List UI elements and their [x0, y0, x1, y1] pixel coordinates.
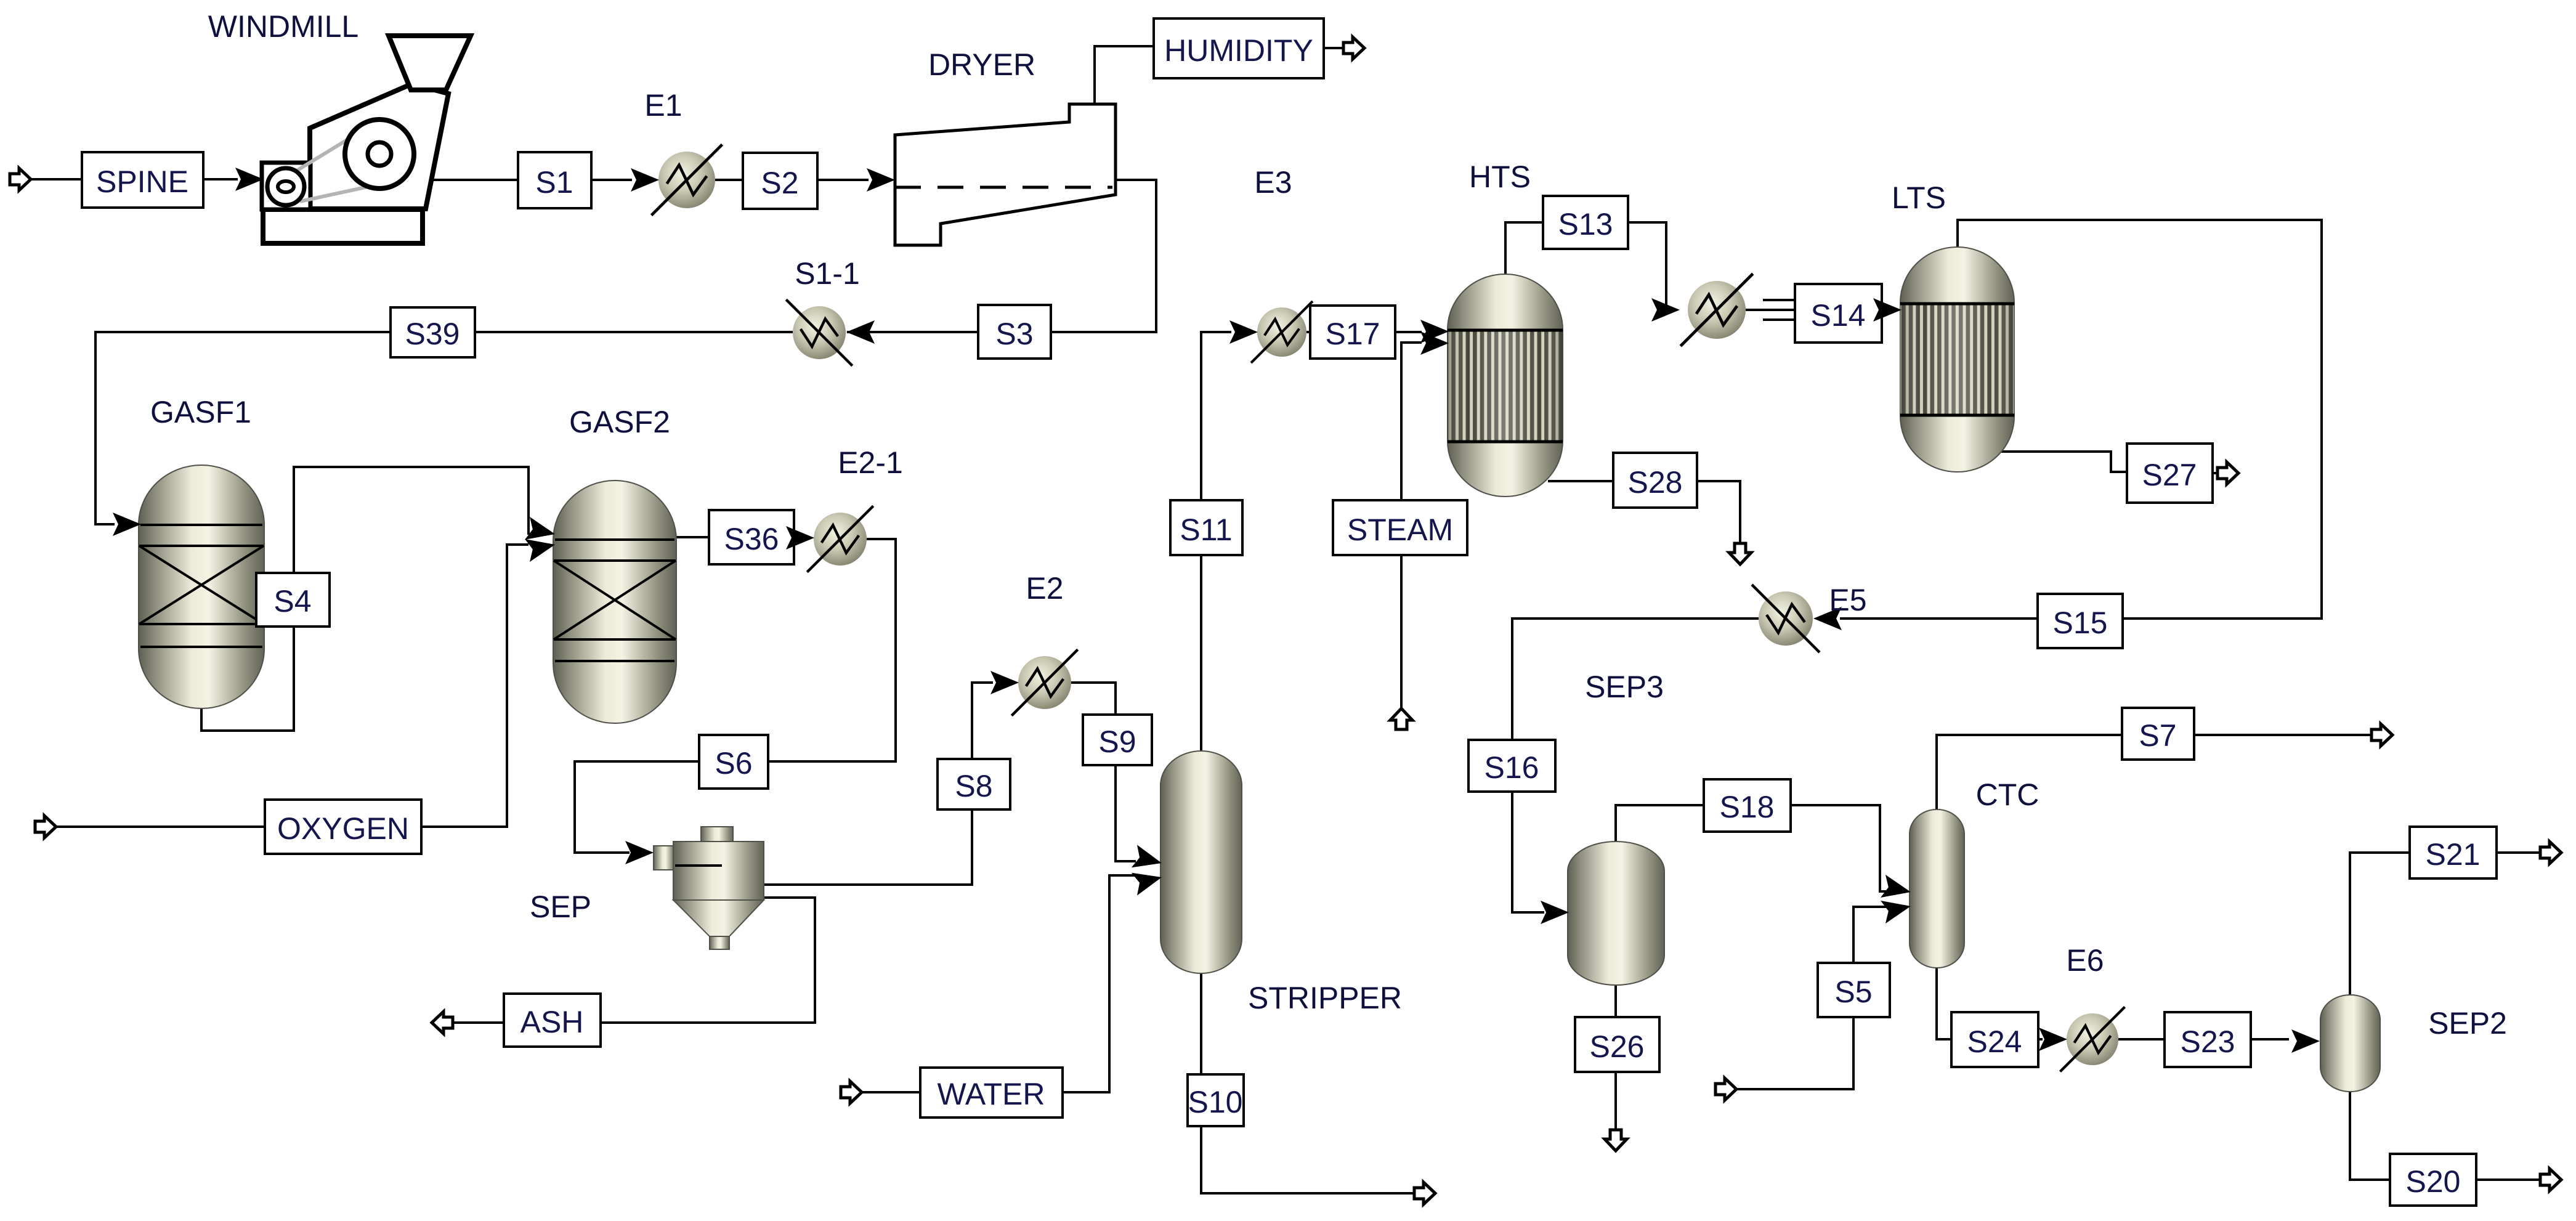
heater E3 [1251, 301, 1313, 363]
drum SEP2 [2320, 995, 2380, 1092]
arrow into WINDMILL [235, 168, 264, 191]
stream box S11 [1170, 500, 1242, 555]
svg-text:S28: S28 [1628, 465, 1683, 500]
svg-text:S20: S20 [2406, 1164, 2461, 1199]
svg-text:E1: E1 [644, 88, 682, 123]
stream box S36 [709, 510, 794, 564]
svg-text:S1-1: S1-1 [795, 256, 860, 291]
heater E4 [1680, 274, 1752, 346]
stream box ASH [504, 994, 601, 1047]
wire WATER feed [862, 1091, 920, 1093]
svg-text:S36: S36 [724, 522, 779, 556]
wire SEP2 to S20 out [2350, 1090, 2541, 1180]
wire SEP2 to S21 out [2350, 853, 2541, 996]
stream box WATER [920, 1068, 1063, 1118]
heater E1 [652, 145, 723, 216]
open arrow OXYGEN input [35, 816, 56, 838]
reactor LTS [1900, 247, 2014, 472]
svg-text:S10: S10 [1188, 1085, 1243, 1119]
wire E6 to S23 to SEP2 [2118, 1038, 2289, 1040]
heater E2-1 [807, 506, 873, 572]
wire E5 to S16 to SEP3 [1512, 619, 1759, 912]
svg-text:S4: S4 [273, 584, 311, 619]
stream box S27 [2127, 444, 2213, 503]
dryer DRYER [895, 104, 1116, 245]
svg-text:WINDMILL: WINDMILL [208, 9, 358, 44]
arrow into CTC upper [1881, 875, 1913, 904]
svg-text:S21: S21 [2426, 837, 2481, 872]
wire WATER to STRIPPER [1063, 875, 1136, 1092]
svg-text:SEP3: SEP3 [1585, 670, 1664, 704]
stream box SPINE [82, 152, 203, 208]
svg-text:S9: S9 [1098, 724, 1136, 759]
stream box S28 [1613, 453, 1697, 508]
svg-text:GASF2: GASF2 [569, 405, 670, 439]
stream box S20 [2390, 1154, 2476, 1206]
arrow into STRIPPER lower [1132, 866, 1165, 896]
wire S3 to S1-1 [847, 331, 978, 333]
arrow into DRYER [867, 168, 895, 192]
wire S24 to E6 [2038, 1038, 2043, 1040]
wire SEP3 to S18 to CTC [1616, 805, 1887, 891]
open arrow ASH out [432, 1012, 453, 1034]
arrow into E6 [2039, 1028, 2067, 1051]
open arrow WATER input [841, 1081, 862, 1103]
svg-text:WATER: WATER [938, 1077, 1045, 1111]
arrow into GASF1 [113, 513, 141, 536]
svg-text:STEAM: STEAM [1347, 513, 1453, 547]
arrow into E5 [1813, 607, 1842, 630]
svg-text:HUMIDITY: HUMIDITY [1164, 33, 1313, 68]
svg-text:DRYER: DRYER [928, 47, 1035, 82]
svg-text:E5: E5 [1829, 583, 1866, 617]
wire LTS to S27 out [2001, 452, 2218, 473]
svg-text:S2: S2 [761, 166, 798, 200]
stub marks at S14 [1763, 300, 1794, 320]
column STRIPPER [1160, 751, 1242, 973]
wire WINDMILL to S1 [429, 179, 518, 181]
wire HTS to S13 to E4 [1505, 222, 1666, 310]
heater E6 [2060, 1007, 2124, 1071]
heater E5 [1752, 585, 1820, 652]
stream box S17 [1310, 306, 1395, 359]
open arrow S26 out [1605, 1130, 1627, 1151]
arrow into E2-1 [786, 526, 814, 550]
arrow into HTS upper [1420, 320, 1449, 343]
stream box S14 [1795, 284, 1882, 343]
svg-text:SEP: SEP [530, 890, 591, 924]
stream box S16 [1468, 740, 1555, 792]
svg-text:ASH: ASH [520, 1005, 584, 1039]
wire SEP3 to S26 down out [1614, 984, 1617, 1131]
wire OXYGEN feed [56, 825, 265, 828]
svg-text:GASF1: GASF1 [150, 395, 251, 429]
svg-text:S15: S15 [2053, 606, 2108, 640]
svg-text:E3: E3 [1254, 165, 1292, 200]
svg-text:S18: S18 [1720, 790, 1775, 824]
stream box S7 [2122, 708, 2194, 760]
svg-text:STRIPPER: STRIPPER [1248, 981, 1402, 1015]
stream box S3 [978, 305, 1051, 359]
stream box STEAM [1333, 500, 1467, 555]
stream box S39 [391, 307, 475, 357]
open arrow S5 input [1715, 1078, 1736, 1100]
mill WINDMILL [262, 36, 471, 243]
svg-text:S8: S8 [955, 769, 992, 803]
svg-text:E6: E6 [2066, 943, 2104, 978]
stream box S9 [1083, 715, 1152, 765]
cyclone SEP [654, 827, 764, 949]
reactor HTS [1448, 274, 1563, 497]
open arrow S21 out [2540, 842, 2561, 864]
wire STRIPPER to S10 out [1201, 972, 1415, 1193]
svg-text:SPINE: SPINE [96, 164, 188, 199]
svg-text:S11: S11 [1180, 513, 1232, 547]
heater S1-1 [786, 299, 852, 365]
stream box S10 [1188, 1074, 1244, 1126]
svg-text:S13: S13 [1558, 207, 1613, 241]
arrow into E4 [1651, 298, 1680, 322]
open arrow STEAM input [1390, 708, 1412, 729]
stream box S5 [1818, 963, 1890, 1017]
stream box S8 [938, 759, 1010, 809]
wire E2-1 to S6 to SEP cyclone [575, 539, 896, 853]
svg-text:S39: S39 [405, 317, 460, 351]
arrow into STRIPPER upper [1132, 845, 1165, 874]
arrow into S1-1 [846, 320, 875, 344]
arrow into E1 [631, 168, 659, 192]
wire S36 to E2-1 [788, 537, 794, 539]
svg-text:SEP2: SEP2 [2428, 1006, 2507, 1040]
reactor GASF1 [139, 465, 264, 708]
stream box S13 [1543, 196, 1628, 249]
wire S2 to DRYER [817, 179, 869, 181]
svg-text:S6: S6 [715, 746, 752, 781]
stream box S1 [518, 152, 591, 208]
stream box OXYGEN [265, 800, 421, 854]
svg-text:S27: S27 [2142, 458, 2197, 492]
wire GASF2 to S36 [675, 536, 709, 538]
open arrow HUMIDITY out [1343, 37, 1364, 59]
svg-text:LTS: LTS [1892, 181, 1946, 215]
stream box S24 [1951, 1012, 2038, 1067]
stream box S6 [699, 735, 768, 789]
wire SPINE to WINDMILL [203, 178, 238, 181]
wire E1 to S2 [715, 179, 743, 181]
arrow into E2 [990, 671, 1019, 694]
heater E2 [1011, 649, 1077, 715]
arrow into GASF2 upper [525, 517, 557, 546]
stream box S4 [256, 573, 330, 627]
wire E4 to S14 [1746, 309, 1795, 311]
wire DRYER to S3 [1051, 180, 1156, 332]
wire CTC to S7 out [1937, 735, 2372, 811]
stream box S26 [1575, 1017, 1659, 1072]
svg-text:HTS: HTS [1469, 160, 1531, 194]
arrow into SEP [625, 841, 654, 864]
wire HUMIDITY out [1324, 47, 1344, 49]
wire SPINE feed [31, 178, 82, 181]
svg-text:S24: S24 [1967, 1024, 2022, 1059]
column CTC [1910, 809, 1964, 968]
svg-text:S26: S26 [1590, 1029, 1645, 1064]
stream box S21 [2410, 827, 2497, 878]
arrow into HTS lower [1420, 331, 1449, 355]
arrow into LTS [1873, 298, 1902, 322]
wire CTC to S24 [1937, 967, 1951, 1039]
stream box S23 [2165, 1012, 2251, 1067]
drum SEP3 [1568, 842, 1664, 985]
wire SEP to S8 to E2 [764, 683, 993, 885]
wire LTS top loop to S15 to E5 [1840, 220, 2322, 619]
wire OXYGEN to GASF2 [421, 545, 529, 827]
wire E2 to S9 to STRIPPER [1071, 683, 1136, 861]
svg-text:S16: S16 [1484, 750, 1539, 785]
arrow into E3 [1229, 320, 1258, 344]
svg-text:OXYGEN: OXYGEN [277, 811, 409, 846]
arrow into CTC lower [1881, 894, 1913, 923]
wire E3 to S17 to HTS [1306, 331, 1422, 333]
reactor GASF2 [553, 481, 676, 723]
svg-text:S14: S14 [1811, 298, 1866, 333]
svg-text:S3: S3 [995, 317, 1033, 351]
wire S14 to LTS [1877, 309, 1882, 311]
svg-text:E2-1: E2-1 [838, 445, 903, 480]
stream box S15 [2038, 594, 2123, 648]
open arrow S27 out [2218, 462, 2238, 484]
open arrow S10 out [1414, 1182, 1435, 1204]
arrow into SEP2 [2291, 1029, 2320, 1053]
open arrow S7 out [2371, 724, 2392, 746]
svg-text:S1: S1 [535, 165, 573, 200]
wire GASF1 to S4 to GASF2 [201, 467, 530, 731]
wire HTS to S28 down out [1548, 481, 1740, 545]
open arrow SPINE input [10, 168, 31, 190]
svg-text:CTC: CTC [1976, 777, 2039, 812]
svg-text:S23: S23 [2181, 1024, 2235, 1059]
wire S39 to GASF1 [95, 332, 391, 524]
svg-text:S5: S5 [1834, 975, 1872, 1009]
open arrow S20 out [2540, 1169, 2561, 1191]
svg-text:E2: E2 [1026, 571, 1063, 606]
stream box S18 [1704, 779, 1791, 832]
svg-text:S17: S17 [1326, 317, 1380, 351]
arrow into GASF2 lower [525, 533, 557, 562]
wire S1 to E1 [591, 179, 632, 181]
stream box S2 [743, 153, 817, 209]
wire STRIPPER to S11 to E3 [1201, 332, 1231, 752]
wire DRYER to HUMIDITY [1095, 46, 1154, 104]
svg-text:S7: S7 [2139, 718, 2176, 753]
wire S1-1 to S39 [475, 331, 793, 333]
arrow into SEP3 [1541, 901, 1569, 924]
wire STEAM to HTS [1401, 343, 1422, 708]
wire S5 feed to CTC [1736, 907, 1887, 1089]
open arrow S28 out [1729, 543, 1751, 564]
wire ASH from SEP [453, 898, 815, 1023]
stream box HUMIDITY [1154, 18, 1324, 78]
